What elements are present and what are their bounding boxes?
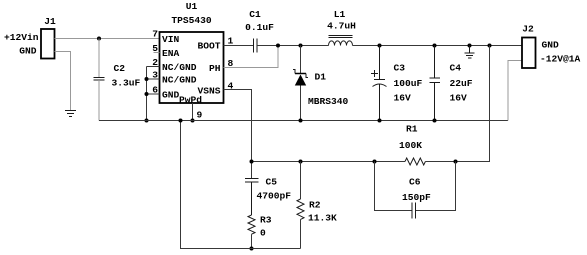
- svg-text:C1: C1: [249, 9, 261, 20]
- svg-text:100K: 100K: [399, 140, 422, 151]
- wire left pins vertical: [146, 67, 148, 121]
- svg-text:150pF: 150pF: [402, 192, 431, 203]
- node C3 bottom junction: [378, 119, 382, 123]
- svg-text:R1: R1: [406, 124, 418, 135]
- node pin3 junction: [145, 77, 149, 81]
- svg-text:9: 9: [197, 110, 203, 121]
- connector J1: [41, 29, 55, 59]
- svg-text:4.7uH: 4.7uH: [327, 21, 356, 32]
- node C6 right junction: [454, 160, 458, 164]
- resistor R1: [405, 158, 425, 165]
- wire pin3 stub: [147, 78, 160, 80]
- svg-text:C6: C6: [409, 177, 421, 188]
- wire mid rail (-12V): [99, 120, 508, 122]
- capacitor C5: [245, 179, 259, 216]
- svg-text:C3: C3: [394, 63, 406, 74]
- svg-text:NC/GND: NC/GND: [162, 75, 197, 86]
- wire right vertical (top rail to R1 row): [425, 46, 489, 162]
- capacitor C2: [94, 39, 105, 121]
- wire pin8 PH: [224, 46, 279, 68]
- svg-text:11.3K: 11.3K: [308, 213, 337, 224]
- capacitor C4: [430, 46, 441, 121]
- svg-text:0.1uF: 0.1uF: [245, 22, 274, 33]
- node feedback junction: [250, 160, 254, 164]
- node D1 top junction: [299, 44, 303, 48]
- wire R2 bottom: [300, 219, 302, 248]
- node pin8 junction: [276, 44, 280, 48]
- wire C6 loop: [375, 162, 456, 211]
- wire R2 top: [300, 162, 302, 200]
- node pin9 to rail: [191, 119, 195, 123]
- node C4 bottom junction: [433, 119, 437, 123]
- inductor L1: [329, 41, 353, 46]
- svg-text:J2: J2: [522, 24, 534, 35]
- svg-text:C2: C2: [114, 63, 126, 74]
- svg-text:TPS5430: TPS5430: [171, 15, 212, 26]
- wire bottom rail: [181, 121, 301, 249]
- svg-text:+12Vin: +12Vin: [4, 32, 39, 43]
- node C2 top junction: [97, 37, 101, 41]
- svg-text:BOOT: BOOT: [197, 41, 220, 52]
- node C3 top junction: [378, 44, 382, 48]
- svg-text:VSNS: VSNS: [197, 86, 220, 97]
- node ground junction on top rail: [468, 44, 472, 48]
- wire R1 row left part: [252, 161, 406, 163]
- svg-text:GND: GND: [162, 90, 180, 101]
- wire C1 to L1: [257, 45, 329, 47]
- svg-text:U1: U1: [186, 1, 198, 12]
- svg-text:GND: GND: [542, 40, 560, 51]
- diode D1 lower wire: [300, 86, 302, 121]
- wire +12V from J1 to U1 VIN: [55, 38, 160, 40]
- svg-text:L1: L1: [334, 9, 346, 20]
- svg-text:GND: GND: [19, 46, 37, 57]
- resistor R2: [297, 199, 304, 219]
- wire pin5 ENA stub: [154, 52, 160, 54]
- svg-text:7: 7: [152, 29, 158, 40]
- diode D1 schottky bar: [293, 70, 308, 78]
- svg-text:J1: J1: [44, 16, 56, 27]
- node R2 top junction: [299, 160, 303, 164]
- svg-text:ENA: ENA: [162, 48, 180, 59]
- wire pin6 stub: [147, 93, 160, 95]
- node left vertical to rail: [145, 119, 149, 123]
- node D1 bottom junction: [299, 119, 303, 123]
- svg-text:PH: PH: [209, 63, 221, 74]
- svg-text:D1: D1: [315, 72, 327, 83]
- wire pin9 PwPd: [192, 103, 194, 121]
- svg-text:4700pF: 4700pF: [257, 191, 292, 202]
- wire J2 -12V branch: [508, 61, 522, 121]
- resistor R3: [248, 215, 255, 234]
- wire L1 to J2 (GND top rail): [353, 45, 523, 47]
- wire R3 bottom: [251, 234, 253, 248]
- svg-text:R3: R3: [260, 215, 272, 226]
- op-amp U1 box: [160, 32, 224, 103]
- svg-text:100uF: 100uF: [394, 78, 423, 89]
- svg-text:NC/GND: NC/GND: [162, 62, 197, 73]
- node C4 top junction: [433, 44, 437, 48]
- capacitor C6: [412, 203, 416, 219]
- diode D1 wire: [300, 46, 302, 74]
- svg-text:C4: C4: [450, 63, 462, 74]
- wire BOOT pin1 to C1: [224, 45, 254, 47]
- connector J2: [522, 38, 536, 69]
- wire J1 GND stub: [55, 52, 71, 111]
- node C6 left junction: [373, 160, 377, 164]
- svg-text:3.3uF: 3.3uF: [112, 78, 141, 89]
- C3 plus sign: [371, 70, 378, 77]
- svg-text:16V: 16V: [450, 93, 468, 104]
- svg-text:22uF: 22uF: [450, 78, 473, 89]
- capacitor C3 (polarized): [373, 46, 387, 121]
- node pin6 junction: [145, 92, 149, 96]
- ground (top rail): [465, 46, 475, 59]
- ground (J1): [65, 111, 76, 117]
- node R3 bottom junction: [250, 247, 254, 251]
- wire pin2 stub: [147, 66, 160, 68]
- svg-text:1: 1: [228, 36, 234, 47]
- diode D1 triangle: [295, 75, 306, 86]
- inductor L1 core bars: [329, 36, 353, 38]
- svg-text:0: 0: [260, 228, 266, 239]
- svg-text:R2: R2: [309, 200, 321, 211]
- svg-text:16V: 16V: [394, 93, 412, 104]
- node right vertical junction: [488, 44, 492, 48]
- svg-text:-12V@1A: -12V@1A: [540, 54, 581, 65]
- svg-text:VIN: VIN: [162, 34, 180, 45]
- wire VSNS pin4: [224, 90, 252, 179]
- svg-text:MBRS340: MBRS340: [308, 96, 349, 107]
- capacitor C1: [254, 39, 258, 53]
- node bottom-left vertical junction: [179, 119, 183, 123]
- svg-text:C5: C5: [266, 177, 278, 188]
